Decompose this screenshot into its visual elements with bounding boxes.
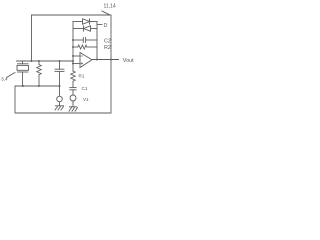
svg-text:Vout: Vout [123,58,134,64]
svg-text:3,4: 3,4 [1,77,8,83]
svg-text:C2: C2 [104,39,111,45]
svg-text:11,14: 11,14 [104,4,116,10]
svg-text:D: D [104,23,108,29]
svg-text:V1: V1 [83,97,89,102]
svg-text:C1: C1 [82,86,88,91]
svg-text:R2: R2 [104,45,111,51]
svg-text:R1: R1 [79,74,85,79]
